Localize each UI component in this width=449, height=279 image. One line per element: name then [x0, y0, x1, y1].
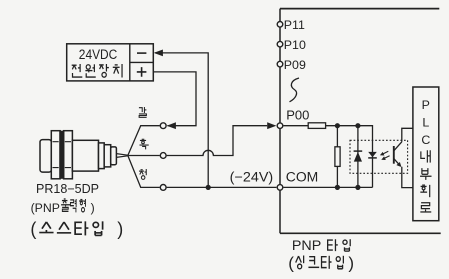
arrowhead into brown terminal	[167, 122, 176, 129]
terminal COM	[277, 185, 283, 191]
wire black to P00 with hop over minus wire	[167, 126, 268, 156]
terminal P09	[277, 61, 283, 67]
svg-text:): )	[91, 201, 95, 215]
wire P00 to LED branch (top rail)	[284, 126, 373, 188]
sensor cable	[116, 154, 127, 158]
svg-text:24VDC: 24VDC	[79, 47, 118, 62]
wire COM to LED branch (bottom rail)	[284, 186, 373, 188]
wire: plus terminal to brown wire	[154, 72, 197, 126]
light arrows	[380, 151, 390, 160]
PLC internal circuit box	[413, 87, 439, 221]
svg-text:): )	[117, 219, 123, 239]
svg-text:): )	[348, 253, 354, 272]
emitter wire to PLC internal box	[402, 167, 413, 188]
wire blue (to bottom)	[128, 156, 160, 188]
terminal P00	[277, 123, 283, 129]
branch resistor R2 vertical wire	[336, 126, 338, 188]
power supply PS1 24VDC box	[67, 44, 154, 81]
svg-text:PNP: PNP	[292, 237, 321, 253]
svg-text:(: (	[288, 253, 294, 272]
minus terminal label	[137, 52, 146, 54]
emitter arrowhead	[396, 162, 401, 167]
junction dots bottom rail	[335, 185, 340, 190]
junction: minus wire joins blue wire	[206, 185, 211, 190]
label brown (gal)	[139, 107, 147, 117]
junction dots top rail	[335, 123, 340, 128]
arrowhead into P00	[267, 122, 276, 129]
label blue (cheong)	[139, 169, 146, 179]
wire: minus terminal to blue wire (0V)	[155, 53, 208, 186]
diode D1 (protection, pointing up)	[354, 150, 363, 152]
svg-text:P00: P00	[286, 108, 309, 123]
sensor locking black band	[59, 131, 64, 179]
wire brown (to top)	[128, 126, 160, 156]
svg-text:L: L	[422, 116, 429, 130]
diode D1 branch wire	[357, 126, 359, 188]
wire black (middle)	[128, 155, 160, 157]
terminal circle blue	[160, 185, 166, 191]
svg-text:(: (	[30, 219, 36, 239]
svg-text:C: C	[421, 133, 430, 147]
collector wire to PLC internal box	[402, 128, 413, 142]
phototransistor Q1	[393, 146, 395, 164]
svg-text:(−24V): (−24V)	[230, 170, 273, 185]
optocoupler dashed box	[350, 140, 408, 173]
PLC outline left terminal rail	[279, 9, 281, 234]
terminal P11	[277, 22, 283, 28]
svg-text:(PNP: (PNP	[31, 201, 60, 215]
resistor R2 (vertical)	[335, 147, 340, 167]
svg-text:P09: P09	[284, 58, 306, 72]
arrowhead into minus terminal	[154, 50, 163, 57]
optocoupler LED D2 (pointing down)	[368, 152, 377, 157]
terminal circle brown	[160, 123, 166, 129]
label black (heuk)	[139, 139, 148, 149]
terminal P10	[277, 41, 283, 47]
label power supply (jeon-won-jang-chi)	[72, 64, 83, 77]
svg-text:P11: P11	[284, 18, 305, 32]
svg-text:PR18−5DP: PR18−5DP	[36, 182, 99, 196]
PLC outline top line	[280, 8, 439, 10]
svg-text:P: P	[422, 98, 430, 112]
wire blue to COM	[167, 186, 277, 188]
label nae-bu-hoe-ro (internal circuit)	[421, 150, 430, 162]
break squiggle between P09 and P00	[290, 78, 300, 102]
svg-text:P10: P10	[284, 38, 306, 52]
terminal circle black	[160, 153, 166, 159]
plus terminal label	[137, 67, 147, 77]
proximity sensor PR18-5DP body	[40, 131, 116, 179]
resistor R1 (series, horizontal)	[308, 123, 325, 129]
svg-text:COM: COM	[286, 170, 319, 185]
PLC outline bottom line	[280, 232, 441, 234]
